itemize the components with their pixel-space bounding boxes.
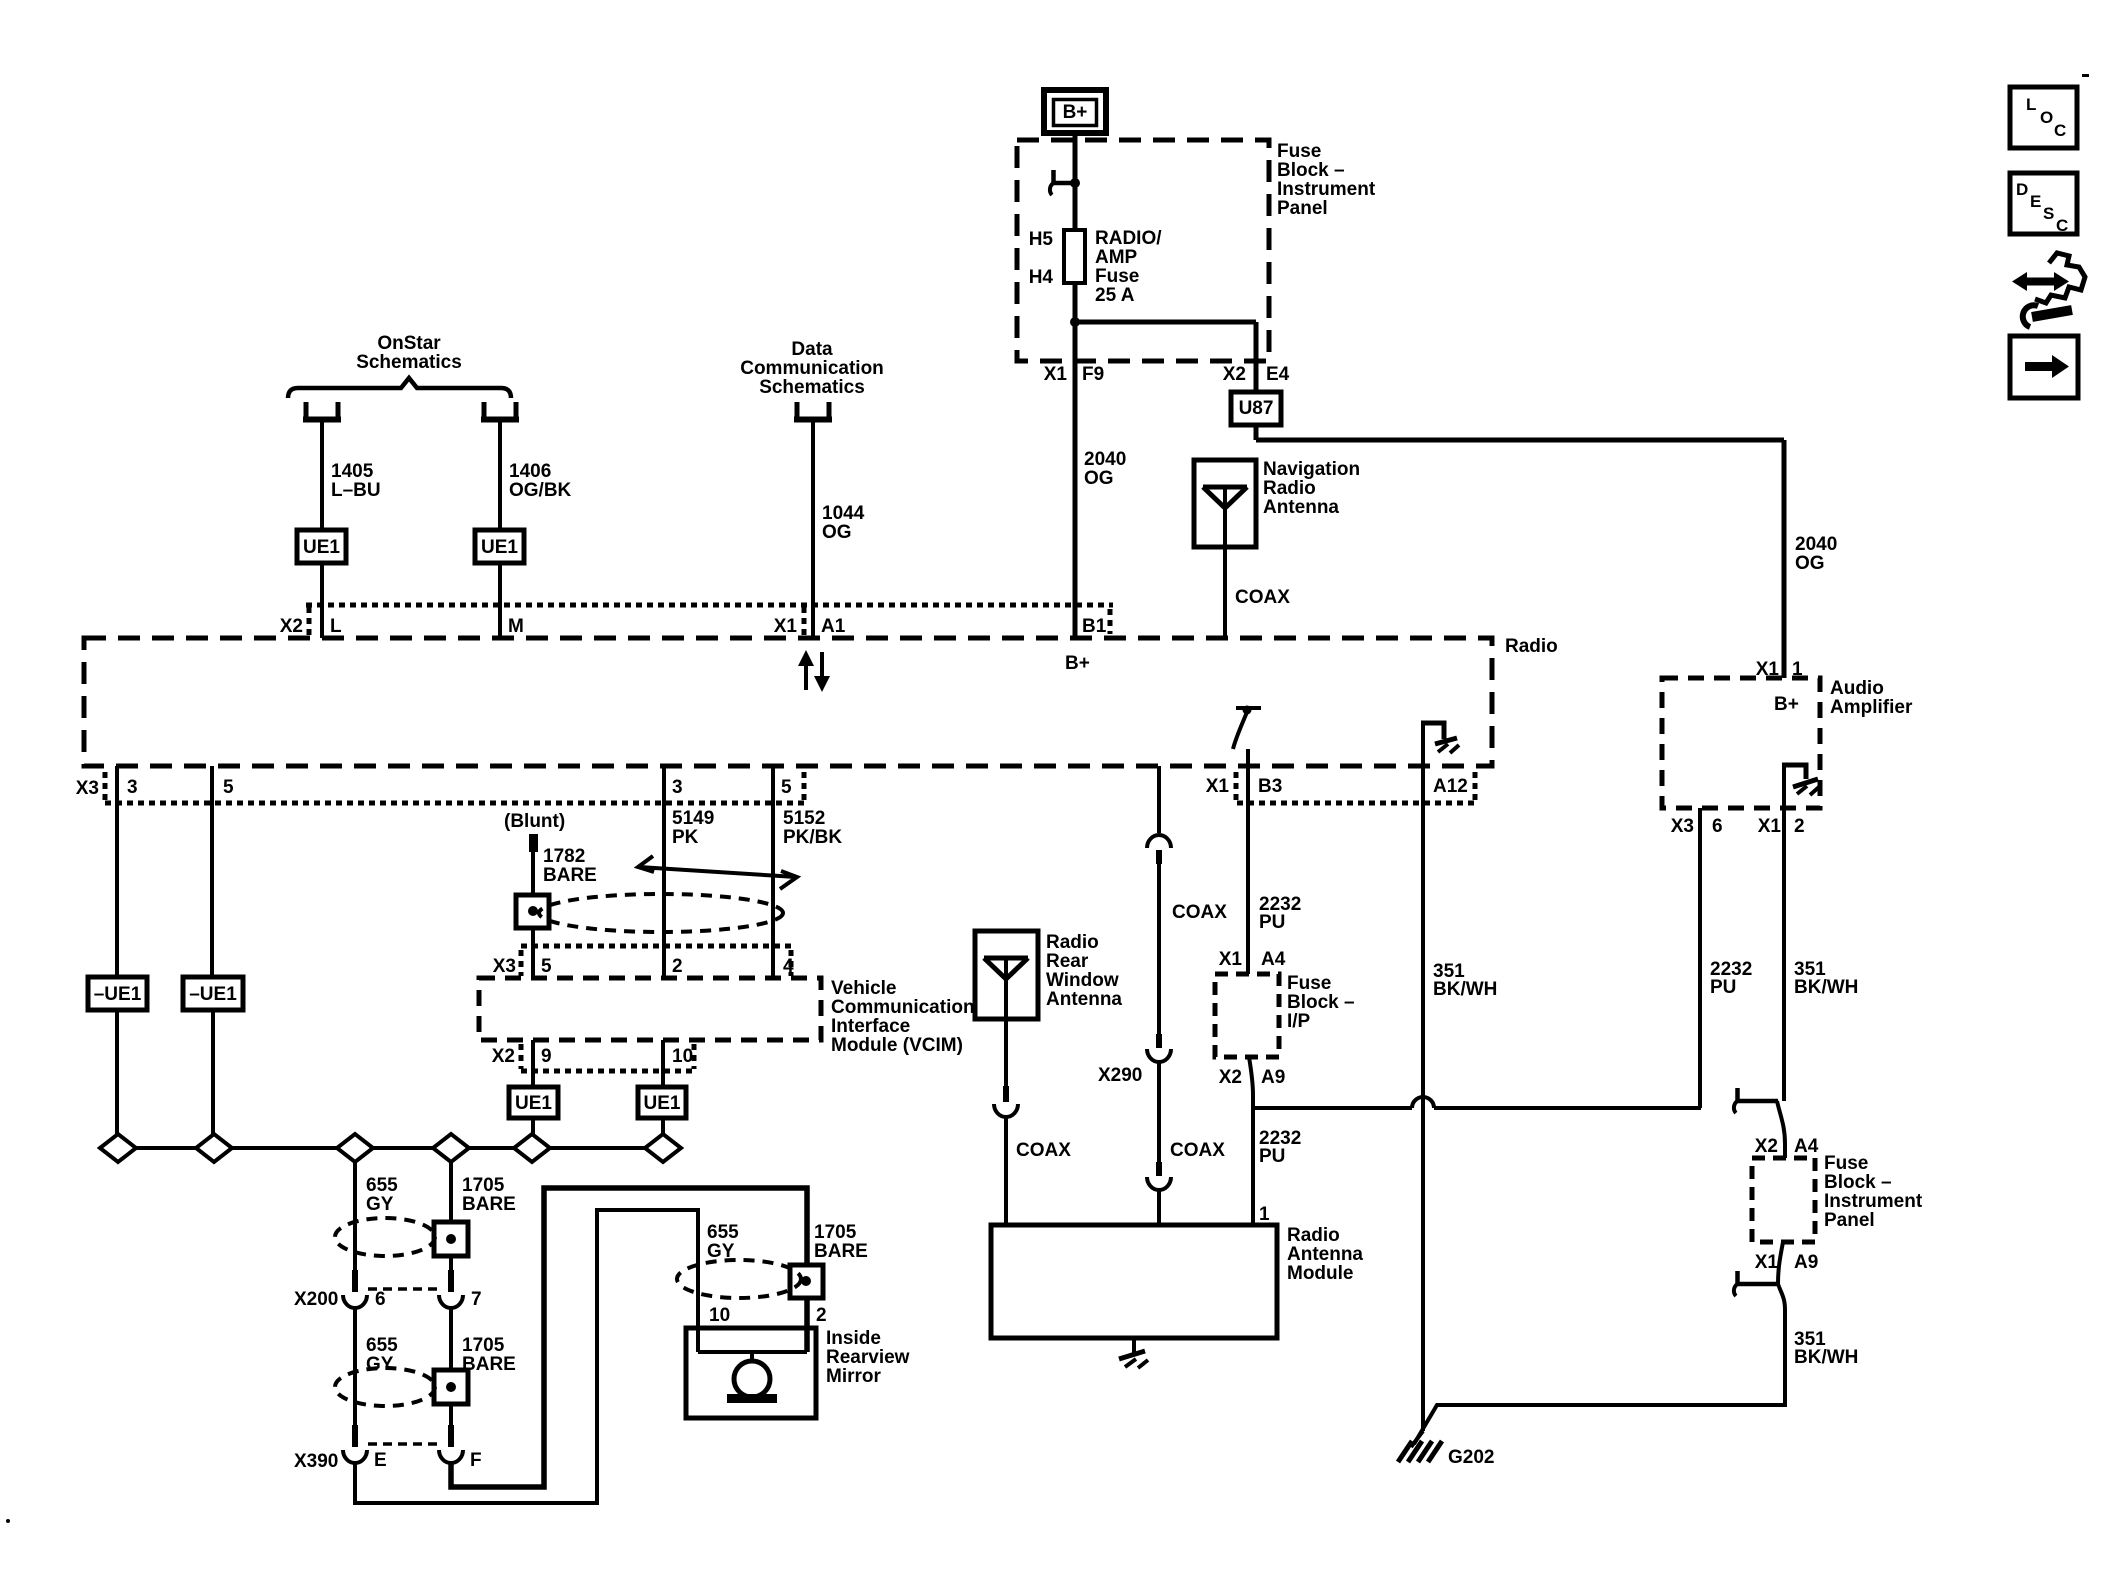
svg-text:1782: 1782 <box>543 846 585 867</box>
svg-text:Fuse: Fuse <box>1824 1153 1868 1174</box>
svg-text:U87: U87 <box>1239 398 1274 419</box>
svg-text:1705: 1705 <box>814 1222 857 1243</box>
svg-text:5: 5 <box>223 777 234 798</box>
svg-text:Schematics: Schematics <box>356 352 462 373</box>
svg-text:UE1: UE1 <box>515 1093 552 1114</box>
svg-text:Interface: Interface <box>831 1016 910 1037</box>
svg-text:PU: PU <box>1259 912 1285 933</box>
svg-text:C: C <box>2054 121 2066 140</box>
svg-text:1406: 1406 <box>509 461 551 482</box>
svg-text:5152: 5152 <box>783 808 825 829</box>
svg-text:X1: X1 <box>1758 816 1782 837</box>
svg-text:Fuse: Fuse <box>1095 266 1139 287</box>
svg-text:F9: F9 <box>1082 364 1104 385</box>
svg-text:OnStar: OnStar <box>377 333 441 354</box>
svg-text:BK/WH: BK/WH <box>1794 977 1858 998</box>
svg-text:3: 3 <box>127 777 138 798</box>
svg-text:Mirror: Mirror <box>826 1366 882 1387</box>
svg-text:F: F <box>470 1450 482 1471</box>
svg-text:PU: PU <box>1710 977 1736 998</box>
svg-text:X2: X2 <box>280 616 303 637</box>
svg-text:GY: GY <box>707 1241 735 1262</box>
svg-text:Antenna: Antenna <box>1046 989 1122 1010</box>
svg-text:PK/BK: PK/BK <box>783 827 842 848</box>
svg-text:6: 6 <box>375 1289 386 1310</box>
svg-text:Panel: Panel <box>1277 198 1328 219</box>
svg-text:10: 10 <box>672 1046 693 1067</box>
svg-text:Data: Data <box>791 339 833 360</box>
svg-text:1705: 1705 <box>462 1175 505 1196</box>
svg-text:GY: GY <box>366 1194 394 1215</box>
svg-text:O: O <box>2040 108 2053 127</box>
svg-text:RADIO/: RADIO/ <box>1095 228 1162 249</box>
svg-text:COAX: COAX <box>1235 587 1290 608</box>
svg-text:B+: B+ <box>1065 653 1090 674</box>
svg-text:L: L <box>2026 95 2036 114</box>
svg-text:1044: 1044 <box>822 503 865 524</box>
svg-text:X1: X1 <box>1755 1252 1779 1273</box>
svg-text:–UE1: –UE1 <box>94 984 142 1005</box>
svg-text:(Blunt): (Blunt) <box>504 811 565 832</box>
svg-text:1705: 1705 <box>462 1335 505 1356</box>
svg-text:OG: OG <box>822 522 852 543</box>
svg-text:1: 1 <box>1792 659 1803 680</box>
svg-text:A4: A4 <box>1261 949 1286 970</box>
svg-text:4: 4 <box>783 956 794 977</box>
svg-text:L–BU: L–BU <box>331 480 381 501</box>
svg-text:UE1: UE1 <box>644 1093 681 1114</box>
svg-text:X1: X1 <box>774 616 798 637</box>
svg-text:Radio: Radio <box>1505 636 1558 657</box>
svg-text:Communication: Communication <box>831 997 975 1018</box>
svg-text:X1: X1 <box>1219 949 1243 970</box>
svg-text:Vehicle: Vehicle <box>831 978 897 999</box>
svg-text:AMP: AMP <box>1095 247 1138 268</box>
svg-text:COAX: COAX <box>1170 1140 1225 1161</box>
svg-text:Amplifier: Amplifier <box>1830 697 1913 718</box>
svg-text:BK/WH: BK/WH <box>1794 1347 1858 1368</box>
svg-text:PK: PK <box>672 827 699 848</box>
svg-text:Instrument: Instrument <box>1277 179 1376 200</box>
svg-text:1405: 1405 <box>331 461 374 482</box>
svg-text:COAX: COAX <box>1016 1140 1071 1161</box>
svg-text:655: 655 <box>366 1175 398 1196</box>
svg-text:PU: PU <box>1259 1146 1285 1167</box>
svg-text:H4: H4 <box>1029 267 1054 288</box>
svg-text:5: 5 <box>541 956 552 977</box>
svg-text:Fuse: Fuse <box>1287 973 1331 994</box>
svg-text:X2: X2 <box>1219 1067 1242 1088</box>
svg-text:10: 10 <box>709 1305 730 1326</box>
svg-text:Inside: Inside <box>826 1328 881 1349</box>
svg-text:OG: OG <box>1084 468 1114 489</box>
svg-text:Radio: Radio <box>1263 478 1316 499</box>
svg-text:Module (VCIM): Module (VCIM) <box>831 1035 963 1056</box>
svg-text:2: 2 <box>816 1305 827 1326</box>
svg-text:3: 3 <box>672 777 683 798</box>
svg-text:Schematics: Schematics <box>759 377 865 398</box>
svg-text:Module: Module <box>1287 1263 1354 1284</box>
svg-text:Rearview: Rearview <box>826 1347 910 1368</box>
svg-text:Block –: Block – <box>1277 160 1345 181</box>
svg-text:X1: X1 <box>1044 364 1068 385</box>
svg-text:6: 6 <box>1712 816 1723 837</box>
svg-text:X1: X1 <box>1756 659 1780 680</box>
svg-text:X2: X2 <box>492 1046 515 1067</box>
svg-text:OG: OG <box>1795 553 1825 574</box>
svg-text:GY: GY <box>366 1354 394 1375</box>
svg-text:–UE1: –UE1 <box>189 984 237 1005</box>
svg-text:B3: B3 <box>1258 776 1282 797</box>
svg-text:E: E <box>374 1450 387 1471</box>
svg-text:BARE: BARE <box>814 1241 868 1262</box>
svg-text:655: 655 <box>707 1222 739 1243</box>
svg-text:Antenna: Antenna <box>1287 1244 1363 1265</box>
svg-text:X2: X2 <box>1223 364 1246 385</box>
svg-text:X3: X3 <box>493 956 516 977</box>
svg-text:A9: A9 <box>1261 1067 1285 1088</box>
svg-text:2: 2 <box>672 956 683 977</box>
svg-text:Communication: Communication <box>740 358 884 379</box>
svg-text:2040: 2040 <box>1795 534 1837 555</box>
svg-text:X1: X1 <box>1206 776 1230 797</box>
svg-text:Audio: Audio <box>1830 678 1884 699</box>
svg-text:A1: A1 <box>821 616 846 637</box>
svg-text:Radio: Radio <box>1287 1225 1340 1246</box>
svg-text:Block –: Block – <box>1824 1172 1892 1193</box>
svg-text:A4: A4 <box>1794 1136 1819 1157</box>
svg-text:Navigation: Navigation <box>1263 459 1360 480</box>
svg-text:X290: X290 <box>1098 1065 1142 1086</box>
svg-text:OG/BK: OG/BK <box>509 480 572 501</box>
svg-text:X3: X3 <box>1671 816 1694 837</box>
svg-text:G202: G202 <box>1448 1447 1494 1468</box>
svg-text:655: 655 <box>366 1335 398 1356</box>
svg-text:C: C <box>2056 216 2068 235</box>
svg-text:7: 7 <box>471 1289 482 1310</box>
svg-text:E: E <box>2030 192 2041 211</box>
svg-text:E4: E4 <box>1266 364 1290 385</box>
svg-text:5149: 5149 <box>672 808 714 829</box>
svg-text:Instrument: Instrument <box>1824 1191 1923 1212</box>
svg-text:L: L <box>330 616 342 637</box>
svg-text:B1: B1 <box>1082 616 1107 637</box>
svg-text:2040: 2040 <box>1084 449 1126 470</box>
svg-text:Radio: Radio <box>1046 932 1099 953</box>
svg-text:X3: X3 <box>76 778 99 799</box>
svg-text:S: S <box>2043 204 2054 223</box>
svg-text:A9: A9 <box>1794 1252 1818 1273</box>
svg-text:UE1: UE1 <box>481 537 518 558</box>
svg-text:D: D <box>2016 180 2028 199</box>
svg-text:X200: X200 <box>294 1289 338 1310</box>
svg-text:X390: X390 <box>294 1451 338 1472</box>
svg-text:X2: X2 <box>1755 1136 1778 1157</box>
svg-text:A12: A12 <box>1433 776 1468 797</box>
svg-text:Panel: Panel <box>1824 1210 1875 1231</box>
svg-text:BARE: BARE <box>462 1194 516 1215</box>
svg-text:I/P: I/P <box>1287 1011 1311 1032</box>
svg-text:UE1: UE1 <box>303 537 340 558</box>
svg-text:B+: B+ <box>1063 102 1088 123</box>
svg-text:B+: B+ <box>1774 694 1799 715</box>
svg-text:1: 1 <box>1259 1204 1270 1225</box>
svg-text:COAX: COAX <box>1172 902 1227 923</box>
svg-text:Antenna: Antenna <box>1263 497 1339 518</box>
svg-text:BK/WH: BK/WH <box>1433 979 1497 1000</box>
svg-text:Block –: Block – <box>1287 992 1355 1013</box>
svg-text:Rear: Rear <box>1046 951 1089 972</box>
svg-text:Fuse: Fuse <box>1277 141 1321 162</box>
svg-text:9: 9 <box>541 1046 552 1067</box>
svg-text:Window: Window <box>1046 970 1119 991</box>
svg-text:2: 2 <box>1794 816 1805 837</box>
svg-text:M: M <box>508 616 524 637</box>
svg-text:5: 5 <box>781 777 792 798</box>
svg-text:H5: H5 <box>1029 229 1054 250</box>
svg-text:25 A: 25 A <box>1095 285 1135 306</box>
svg-text:BARE: BARE <box>543 865 597 886</box>
